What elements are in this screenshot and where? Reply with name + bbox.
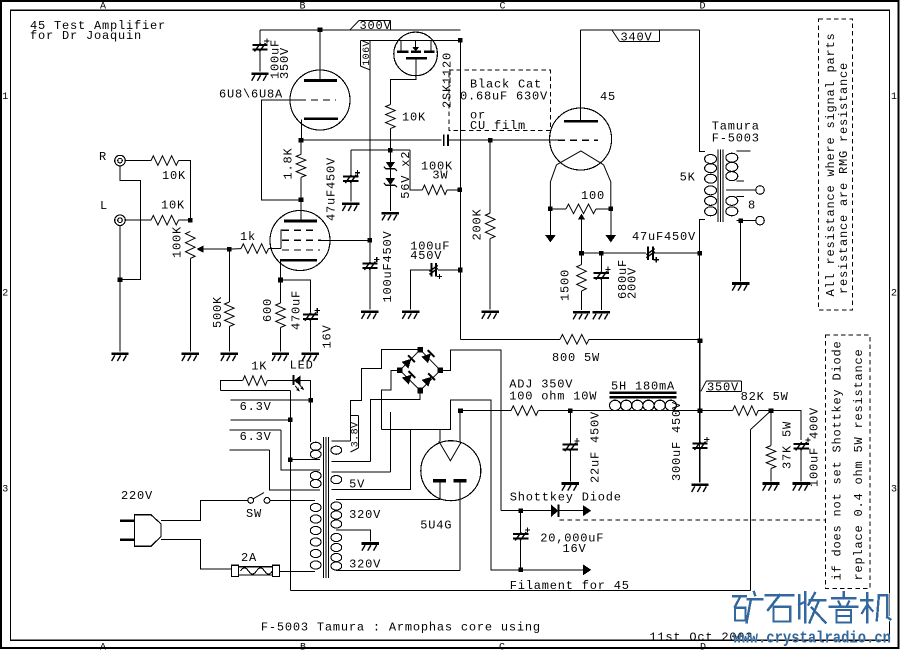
capacitor 20,000uF 16V xyxy=(520,511,522,532)
ground xyxy=(251,72,268,75)
plate xyxy=(564,120,598,123)
wire bridge bottom to 3.8V winding bottom xyxy=(370,391,420,462)
svg-text:C: C xyxy=(499,642,505,650)
svg-text:2A: 2A xyxy=(241,551,257,565)
svg-text:D: D xyxy=(700,1,706,12)
tube 6U8 triode section xyxy=(290,70,350,130)
note box RMG resistance xyxy=(819,19,853,310)
wire cathode follower output xyxy=(301,139,441,141)
svg-text:3: 3 xyxy=(2,485,8,496)
resistor 82K 5W xyxy=(700,410,733,412)
wire xyxy=(270,499,315,501)
svg-text:800 5W: 800 5W xyxy=(552,351,600,365)
svg-text:0.68uF 630V: 0.68uF 630V xyxy=(460,90,548,104)
wire bias return diagonal xyxy=(751,411,771,430)
node rail to plate xyxy=(318,28,323,33)
wire xyxy=(521,569,583,571)
resistor 10K (L input) xyxy=(151,215,179,225)
LED xyxy=(267,380,292,382)
resistor 10K (source) xyxy=(386,105,396,129)
resistor 600 xyxy=(280,280,282,303)
svg-text:100K: 100K xyxy=(170,226,184,258)
svg-text:350V: 350V xyxy=(278,47,292,79)
node xyxy=(518,508,523,513)
wire filament right leg to B+ xyxy=(459,411,461,443)
ground xyxy=(302,352,319,355)
pot wiper arrow xyxy=(197,246,204,253)
OPT secondary winding upper xyxy=(726,153,738,162)
LED rays xyxy=(295,386,298,390)
filament feed arrow right xyxy=(610,209,612,235)
svg-text:16V: 16V xyxy=(563,542,587,556)
capacitor coupling 0.68uF xyxy=(443,135,445,147)
ground xyxy=(272,352,289,355)
svg-text:A: A xyxy=(100,1,106,12)
node xyxy=(697,251,702,256)
resistor 500K xyxy=(228,249,230,302)
svg-text:200K: 200K xyxy=(471,208,485,240)
wire xyxy=(521,510,551,512)
ground xyxy=(182,352,199,355)
wire OPT primary bottom lead xyxy=(700,219,705,482)
winding 3.8V xyxy=(332,440,351,442)
svg-text:5H 180mA: 5H 180mA xyxy=(611,379,675,393)
capacitor 22uF 450V xyxy=(569,411,571,443)
winding primary 220V xyxy=(270,499,315,501)
diode bridge SE xyxy=(422,377,432,387)
wire 6.3V return xyxy=(221,390,291,392)
resistor 100 hum pot xyxy=(550,208,566,210)
bridge rectifier diamond xyxy=(400,350,420,371)
resistor 200K xyxy=(489,140,491,213)
svg-text:1.8K: 1.8K xyxy=(282,147,296,179)
capacitor 100uF450V (106V filter) xyxy=(368,238,373,243)
wire B+ dropper line xyxy=(459,40,461,339)
node xyxy=(568,408,573,413)
svg-text:LED: LED xyxy=(290,359,314,373)
transistor Q1 2SK1120 xyxy=(394,32,438,76)
wire xyxy=(538,410,609,412)
node xyxy=(518,568,523,573)
wire xyxy=(740,221,742,282)
svg-text:100uF 400V: 100uF 400V xyxy=(808,407,822,487)
plate xyxy=(284,220,317,223)
resistor 100K 3W xyxy=(410,150,422,190)
resistor 1500 xyxy=(581,253,583,264)
capacitor 47uF450V (bypass to B+) xyxy=(647,246,649,260)
ground xyxy=(361,310,378,313)
wire mains top xyxy=(161,500,248,520)
node xyxy=(288,458,293,463)
arrow filament feed B xyxy=(583,564,591,575)
wire 340V rail xyxy=(580,29,699,31)
diode Shottkey xyxy=(551,505,558,518)
net flag 106V xyxy=(359,40,361,66)
svg-text:10K: 10K xyxy=(161,199,185,213)
node cathode xyxy=(299,138,304,143)
node xyxy=(548,207,553,212)
note box Black Cat xyxy=(449,70,551,130)
svg-text:16V: 16V xyxy=(321,324,335,348)
svg-text:100uF450V: 100uF450V xyxy=(381,230,395,302)
tube 6U8 pentode section xyxy=(270,211,330,271)
ground xyxy=(562,482,579,485)
wire plate lead xyxy=(319,30,321,80)
note box Shottkey replace xyxy=(826,335,870,589)
node bridge top xyxy=(417,347,423,353)
svg-text:340V: 340V xyxy=(621,30,653,44)
wire xyxy=(461,410,512,412)
wire xyxy=(179,219,189,221)
svg-text:2SK1120: 2SK1120 xyxy=(441,52,455,108)
svg-text:3W: 3W xyxy=(432,169,448,183)
wire bridge minus to filament return xyxy=(381,370,400,429)
svg-text:6.3V: 6.3V xyxy=(240,400,272,414)
plate right xyxy=(454,479,467,482)
wire xyxy=(653,252,698,254)
svg-text:resistance are RMG resistance: resistance are RMG resistance xyxy=(837,62,851,294)
node xyxy=(609,207,614,212)
svg-text:A: A xyxy=(100,642,106,650)
resistor 1.8K xyxy=(300,140,302,154)
wire heater low bus xyxy=(290,590,750,592)
svg-text:200V: 200V xyxy=(626,267,640,299)
svg-text:100: 100 xyxy=(581,189,605,203)
svg-text:470uF: 470uF xyxy=(290,290,304,330)
resistor 1K pilot xyxy=(221,381,243,391)
capacitor 680uF 200V xyxy=(600,253,602,271)
svg-text:5U4G: 5U4G xyxy=(420,519,452,533)
ground xyxy=(221,352,238,355)
wire secondary stub top xyxy=(737,150,751,152)
svg-text:F-5003: F-5003 xyxy=(712,131,760,145)
winding 320V upper xyxy=(336,499,441,501)
zener diode 56V #1 xyxy=(389,150,391,162)
terminal circle xyxy=(756,216,765,225)
svg-text:100 ohm 10W: 100 ohm 10W xyxy=(509,390,597,404)
winding 320V lower xyxy=(331,533,342,541)
node xyxy=(579,251,584,256)
wire 6.3V stub 2 xyxy=(230,419,288,421)
capacitor 470uF 16V xyxy=(281,280,311,312)
node xyxy=(458,188,463,193)
ground xyxy=(402,310,419,313)
wire cathode lead xyxy=(280,262,282,279)
svg-text:1500: 1500 xyxy=(559,269,573,301)
cathode xyxy=(304,117,338,120)
zener diode 56V #2 xyxy=(389,169,391,178)
resistor 37K 5W xyxy=(770,411,772,446)
node B+ out xyxy=(458,408,463,413)
dashed alternative link xyxy=(560,519,827,521)
cathode xyxy=(280,259,317,262)
hum pot wiper arrow xyxy=(578,214,586,220)
wire to 45 grid xyxy=(490,139,558,141)
svg-text:C: C xyxy=(500,1,506,12)
svg-text:3.8V: 3.8V xyxy=(350,421,361,447)
wire xyxy=(558,510,583,512)
svg-text:B: B xyxy=(300,642,306,650)
svg-text:82K 5W: 82K 5W xyxy=(741,390,789,404)
wire secondary stub xyxy=(737,195,745,197)
wire filament return bus xyxy=(381,400,518,570)
node 350V xyxy=(698,408,703,413)
svg-text:47uF450V: 47uF450V xyxy=(632,230,696,244)
svg-text:10K: 10K xyxy=(402,110,426,124)
svg-text:8: 8 xyxy=(748,198,756,212)
svg-text:350V: 350V xyxy=(707,380,739,394)
node bridge right xyxy=(438,368,444,374)
wire filament right xyxy=(604,165,611,207)
diode bridge NW xyxy=(402,359,412,369)
diode bridge NE xyxy=(421,354,431,364)
svg-text:220V: 220V xyxy=(121,489,153,503)
OPT primary winding 5K xyxy=(705,155,717,164)
node xyxy=(288,418,293,423)
grid g2 xyxy=(282,239,321,241)
wire xyxy=(676,410,698,412)
ground xyxy=(342,203,359,206)
ground xyxy=(793,482,810,485)
wire bridge plus to shottkey xyxy=(440,350,501,511)
svg-text:106V: 106V xyxy=(362,40,373,66)
svg-text:6.3V: 6.3V xyxy=(240,430,272,444)
grid xyxy=(558,139,598,141)
svg-text:Shottkey Diode: Shottkey Diode xyxy=(510,490,622,504)
net flag 340V xyxy=(612,30,620,41)
node wiper xyxy=(227,247,232,252)
svg-text:R: R xyxy=(99,150,107,164)
winding 5V xyxy=(332,471,391,473)
svg-text:320V: 320V xyxy=(349,558,381,572)
ground xyxy=(573,311,590,314)
transformer T1 core xyxy=(323,437,325,578)
filament feed arrow left xyxy=(549,209,551,235)
plate xyxy=(304,79,337,82)
capacitor 100uF 350V xyxy=(259,30,261,43)
wire plate right lead xyxy=(459,481,461,571)
grid xyxy=(299,99,336,101)
node xyxy=(738,218,743,223)
wire xyxy=(448,139,488,141)
svg-text:10K: 10K xyxy=(162,169,186,183)
wire 6.3V stub 3 xyxy=(230,429,281,431)
winding 6.3V #1 xyxy=(310,400,312,442)
tube 5U4G xyxy=(421,441,481,501)
svg-text:45: 45 xyxy=(600,90,616,104)
svg-text:replace 0.4 ohm 5W resistance: replace 0.4 ohm 5W resistance xyxy=(852,348,866,580)
svg-text:5K: 5K xyxy=(680,170,696,184)
wire gate/drain rail xyxy=(360,39,460,41)
wire jack R ground return xyxy=(120,166,140,280)
wire bridge top to 3.8V winding top xyxy=(351,350,421,441)
node input mix xyxy=(188,218,193,223)
svg-text:2: 2 xyxy=(2,289,8,300)
ground xyxy=(382,212,399,215)
wire LED to 6.3V xyxy=(300,381,310,398)
ground xyxy=(691,483,708,486)
wire xyxy=(126,160,151,162)
capacitor 100uF 400V xyxy=(794,443,809,445)
svg-text:6U8\6U8A: 6U8\6U8A xyxy=(219,88,283,102)
terminal circle xyxy=(756,186,765,195)
node bridge bottom xyxy=(417,388,423,394)
node xyxy=(458,38,463,43)
wire xyxy=(771,411,801,440)
diode bridge SW xyxy=(402,375,412,385)
wire 300V rail xyxy=(260,29,460,31)
wire 6.3V#1 low side xyxy=(289,391,291,591)
ground xyxy=(593,311,610,314)
wire g1 lead xyxy=(281,230,282,248)
svg-text:600: 600 xyxy=(261,298,275,322)
net flag 350V xyxy=(701,381,706,391)
wire grid lead xyxy=(261,100,299,200)
net flag 300V xyxy=(350,21,359,30)
svg-text:if does not set Shottkey Diode: if does not set Shottkey Diode xyxy=(831,340,845,580)
svg-text:500K: 500K xyxy=(211,296,225,328)
wire cathode bias node xyxy=(582,252,647,254)
ground xyxy=(482,310,499,313)
grid g1 xyxy=(282,229,316,231)
resistor ADJ 100 ohm 10W xyxy=(511,406,538,416)
wire 106V node xyxy=(369,40,371,261)
wire secondary stub xyxy=(737,180,745,182)
capacitor 300uF 450V xyxy=(699,411,701,444)
svg-text:450V: 450V xyxy=(410,249,442,263)
arrow filament feed A xyxy=(583,505,591,516)
resistor 1k xyxy=(229,248,241,251)
filament V xyxy=(557,151,604,165)
node xyxy=(118,277,123,282)
node xyxy=(599,251,604,256)
capacitor 100uF 450V (divider) xyxy=(458,268,463,273)
svg-text:B: B xyxy=(300,1,306,12)
node plate of pentode xyxy=(299,198,304,203)
wire plate lead to 340V rail xyxy=(579,30,581,120)
ground xyxy=(111,352,128,355)
resistor 800 5W xyxy=(560,335,589,345)
wire jack L ground return xyxy=(119,226,121,352)
ground xyxy=(762,482,779,485)
wire cathode lead xyxy=(300,120,302,139)
svg-text:1K: 1K xyxy=(251,359,267,373)
wire 6.3V stub 1 xyxy=(230,399,308,401)
svg-text:CU film: CU film xyxy=(470,119,526,133)
svg-text:2: 2 xyxy=(891,289,897,300)
svg-text:22uF 450V: 22uF 450V xyxy=(589,411,603,483)
node cathode xyxy=(278,278,283,283)
wire OPT primary top lead xyxy=(700,30,705,152)
node xyxy=(769,408,774,413)
OPT core xyxy=(717,150,719,223)
wire secondary tap to terminal xyxy=(726,189,756,191)
wire xyxy=(280,570,316,572)
svg-text:www.crystalradio.cn: www.crystalradio.cn xyxy=(733,629,891,648)
wire plate left lead xyxy=(439,481,441,500)
wire xyxy=(589,338,700,340)
svg-text:5V: 5V xyxy=(349,478,365,492)
wire 350V vertical xyxy=(699,341,701,411)
wire xyxy=(126,219,151,221)
capacitor 47uF450V xyxy=(350,150,352,174)
svg-text:L: L xyxy=(100,199,108,213)
svg-text:for Dr Joaquin: for Dr Joaquin xyxy=(30,29,142,43)
svg-text:37K 5W: 37K 5W xyxy=(780,421,794,469)
wire secondary bottom to terminal xyxy=(737,220,756,222)
grid g3 xyxy=(282,249,320,251)
OPT secondary winding lower xyxy=(726,196,738,205)
svg-text:300uF 450V: 300uF 450V xyxy=(670,401,684,481)
tube 45 xyxy=(550,108,612,170)
wire mains bottom xyxy=(161,540,232,570)
svg-text:1: 1 xyxy=(2,92,8,103)
wire filament left xyxy=(550,165,556,207)
svg-text:3: 3 xyxy=(891,485,897,496)
svg-text:320V: 320V xyxy=(349,508,381,522)
svg-text:47uF450V: 47uF450V xyxy=(325,157,339,221)
winding 6.3V #2 xyxy=(281,430,320,470)
wire center tap xyxy=(336,530,370,541)
node xyxy=(488,138,493,143)
resistor 10K (R input) xyxy=(151,156,179,166)
plate left xyxy=(433,479,446,482)
node xyxy=(388,148,393,153)
wire xyxy=(501,510,519,512)
watermark crystal radio logo xyxy=(733,592,890,623)
potentiometer 100K xyxy=(186,231,196,258)
switch SW xyxy=(248,498,254,504)
wire g2 to 106V node xyxy=(321,239,368,241)
node bridge left xyxy=(397,368,403,374)
ground xyxy=(732,282,749,285)
net flag 3.8V xyxy=(351,415,359,417)
wire 106V bias node xyxy=(351,149,410,151)
svg-text:300V: 300V xyxy=(360,19,392,33)
svg-text:1k: 1k xyxy=(240,230,256,244)
svg-text:SW: SW xyxy=(246,507,262,521)
wire filament left leg xyxy=(439,430,441,442)
wire xyxy=(179,161,191,221)
filament V xyxy=(439,441,461,461)
wire source lead xyxy=(390,58,416,104)
wire 6.3V stub 4 xyxy=(230,449,270,451)
svg-text:1: 1 xyxy=(891,92,897,103)
wire plate lead xyxy=(300,200,302,220)
ground xyxy=(362,542,379,545)
node xyxy=(698,339,703,344)
svg-text:F-5003 Tamura : Armophas core: F-5003 Tamura : Armophas core using xyxy=(261,621,541,635)
